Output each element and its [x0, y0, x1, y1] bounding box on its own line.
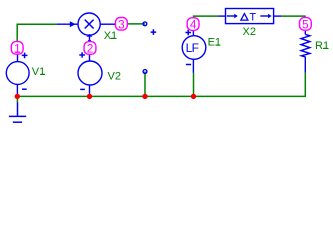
serif bar under 1 of X1: [111, 38, 116, 39]
svg-text:5: 5: [302, 18, 309, 32]
voltage source V1: [6, 53, 29, 96]
svg-text:LF: LF: [186, 41, 199, 55]
node 3 marker: [116, 17, 128, 31]
resistor R1: [301, 31, 310, 73]
svg-text:4: 4: [190, 18, 197, 32]
svg-text:V2: V2: [108, 71, 121, 83]
svg-text:E1: E1: [208, 37, 221, 49]
ground: [9, 102, 26, 122]
svg-text:3: 3: [118, 17, 125, 31]
wire X2 to node 5: [281, 16, 305, 18]
wire from node 1 up and right to X1 input: [17, 24, 57, 42]
junction dot dangling wire: [142, 94, 147, 99]
wire V1 junction to ground: [16, 96, 18, 102]
junction dot V1: [15, 94, 20, 99]
controlled source E1: [182, 30, 206, 73]
serif bar under 1 of R1: [323, 48, 328, 49]
svg-text:2: 2: [87, 42, 94, 56]
wire R1 bottom to rail: [304, 73, 306, 97]
voltage source V2: [78, 52, 102, 96]
node 4 marker: [187, 18, 199, 32]
dangling vertical wire: [144, 72, 146, 97]
floating plus annotation: [151, 29, 157, 35]
junction dot E1: [191, 94, 196, 99]
svg-text:V1: V1: [32, 66, 45, 78]
X2 delta symbol: [241, 14, 248, 21]
wire node 4 to X2: [194, 16, 219, 18]
svg-text:R1: R1: [315, 40, 329, 52]
node 1 marker: [11, 42, 23, 56]
serif bar under 1 of V1: [40, 74, 45, 75]
dangling wire open end (top): [143, 22, 147, 26]
svg-text:1: 1: [14, 42, 21, 56]
wire E1 bottom to rail: [193, 73, 195, 97]
bottom rail wire: [17, 95, 306, 97]
svg-text:T: T: [249, 12, 256, 24]
multiplier X1: [57, 13, 115, 42]
node 5 marker: [300, 18, 312, 32]
delay block X2: [219, 9, 282, 24]
svg-text:X2: X2: [243, 26, 256, 38]
dangling wire open end (middle): [143, 70, 147, 74]
junction dot V2: [87, 94, 92, 99]
node 2 marker: [84, 42, 96, 56]
serif bar under 1 of E1: [216, 45, 221, 46]
wire from node 3 to dangling end: [128, 23, 145, 25]
svg-text:X1: X1: [104, 30, 117, 42]
